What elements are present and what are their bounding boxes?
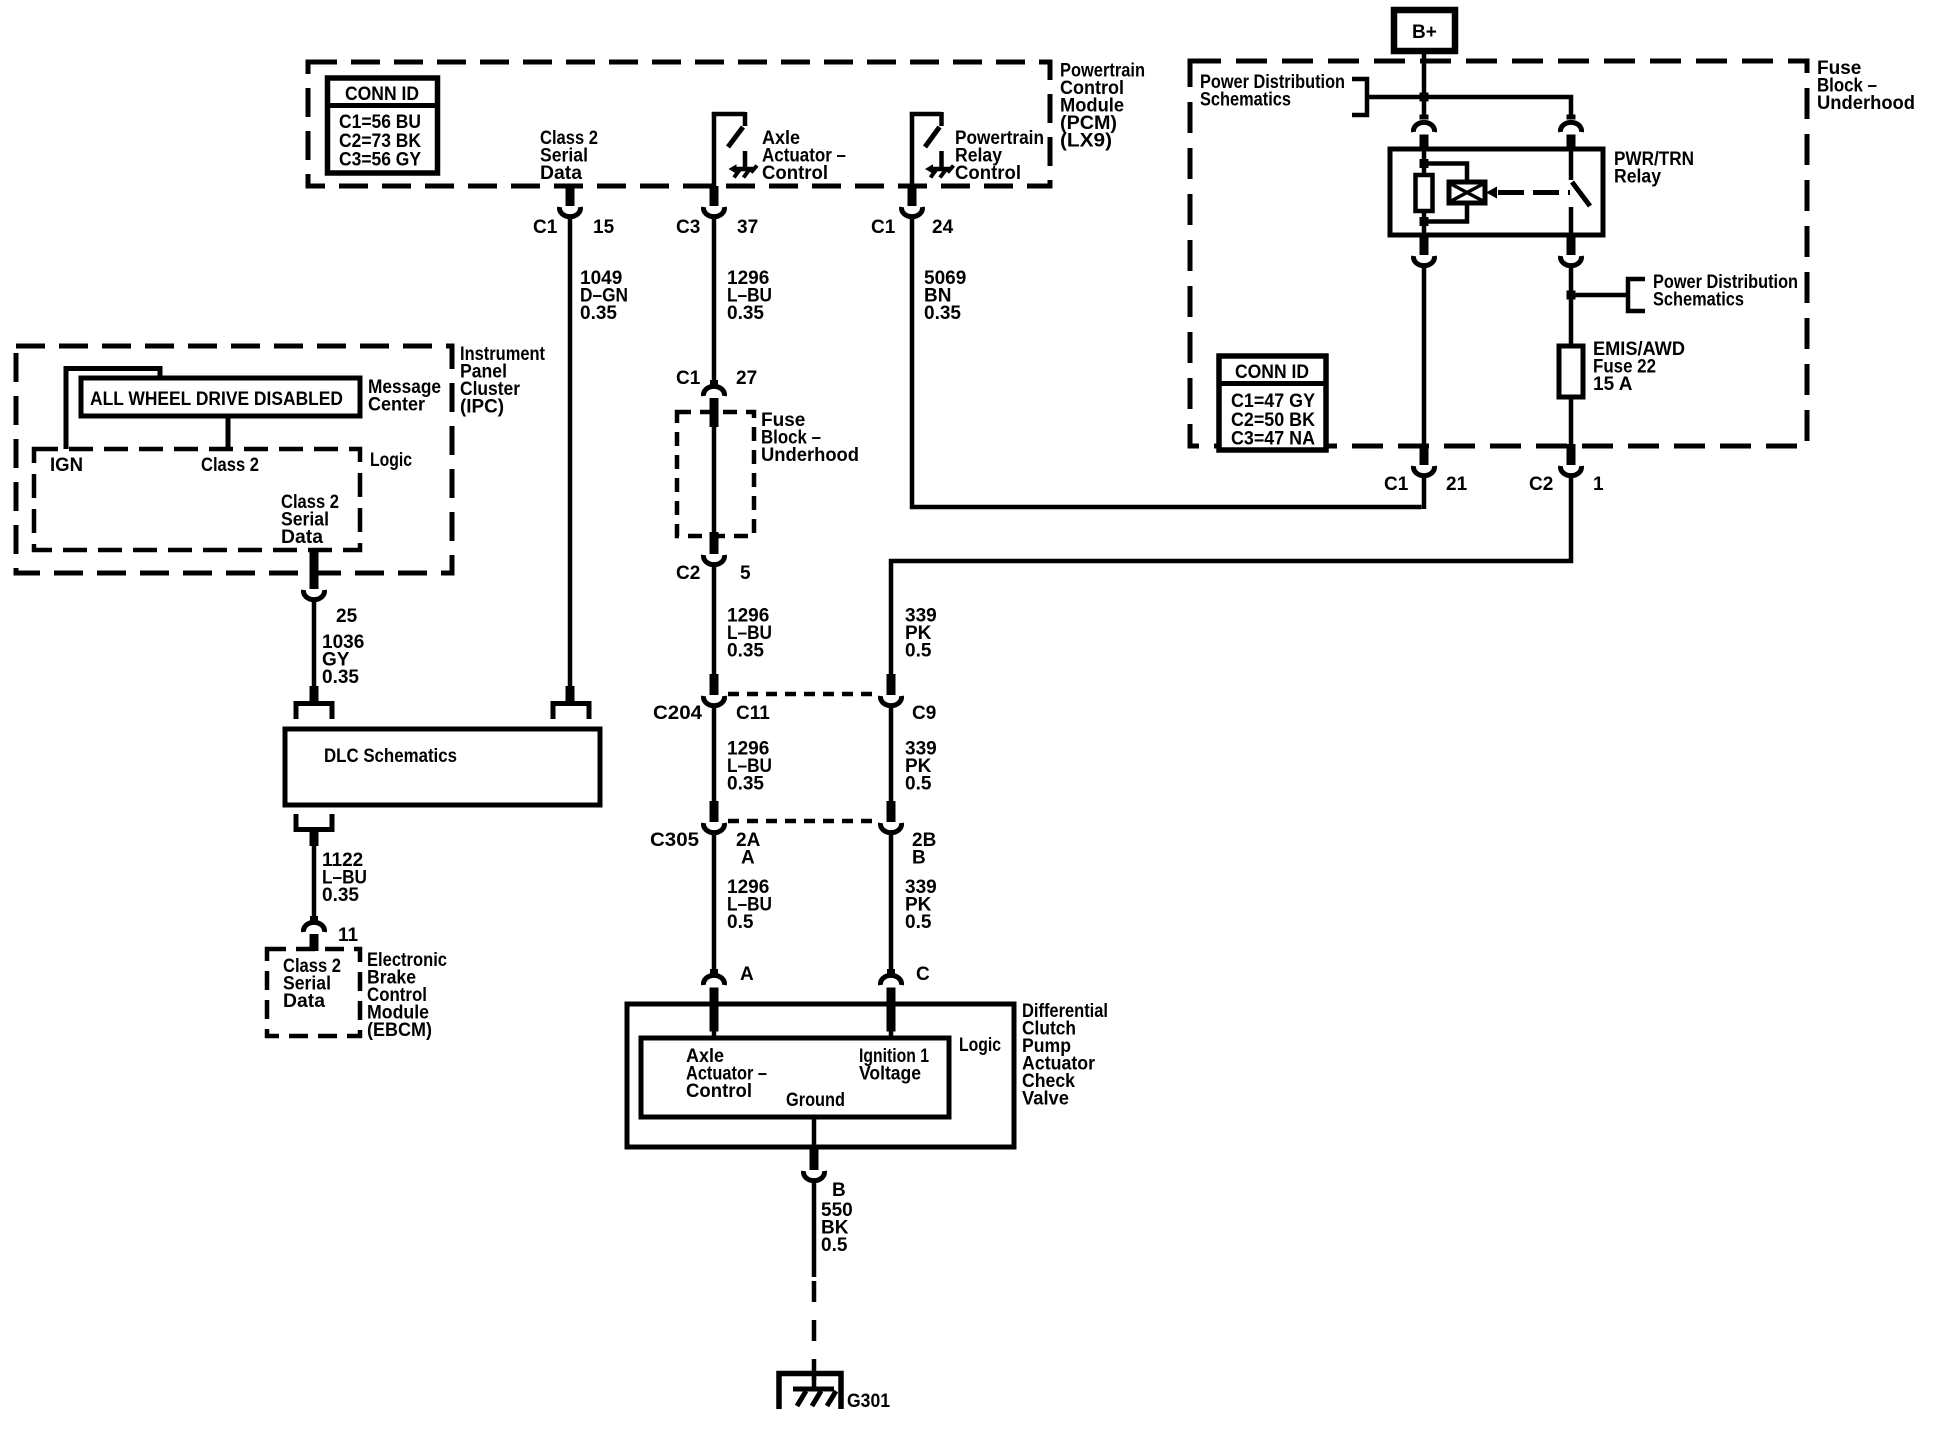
wire: B+ feed down: [1422, 51, 1427, 118]
connector C3 pin 37 (PCM): [704, 186, 725, 217]
svg-text:0.5: 0.5: [905, 641, 932, 662]
svg-text:Control: Control: [762, 163, 828, 184]
svg-text:Control: Control: [686, 1081, 752, 1102]
connector C1 pin 21 (fuse block): [1414, 444, 1435, 476]
wire 1036 GY label: [322, 632, 364, 688]
pin A C labels: [740, 964, 930, 985]
svg-text:Data: Data: [281, 527, 323, 548]
svg-text:15: 15: [593, 217, 615, 238]
svg-text:C1: C1: [676, 368, 701, 389]
wire: 2A down to valve pin A: [712, 834, 717, 974]
Differential Clutch Pump Actuator Check Valve label: [1022, 1001, 1108, 1110]
connector C1 pin 15 (PCM): [560, 186, 581, 217]
power distribution bracket (top): [1352, 79, 1367, 115]
svg-text:C3=56 GY: C3=56 GY: [339, 150, 421, 171]
svg-text:37: 37: [737, 217, 758, 238]
svg-text:Valve: Valve: [1022, 1089, 1069, 1110]
C1 21 labels: [1384, 474, 1468, 495]
wire: relay coil to fuse block C1-21: [1422, 268, 1427, 446]
svg-text:0.5: 0.5: [727, 912, 754, 933]
svg-text:C9: C9: [912, 703, 936, 724]
Power Distribution Schematics label (top): [1200, 72, 1345, 111]
svg-text:IGN: IGN: [50, 455, 83, 476]
svg-text:C3: C3: [676, 217, 700, 238]
svg-text:Schematics: Schematics: [1653, 290, 1744, 311]
wire: DLC down to EBCM pin 11: [312, 844, 317, 917]
inline connector C204 / C11: [703, 674, 724, 706]
connector pin 25 (IPC): [304, 550, 325, 600]
svg-text:C: C: [916, 964, 930, 985]
ground symbol G301: [779, 1374, 841, 1410]
dashed link C11-C9: [728, 692, 878, 697]
wire: relay switched output down: [1569, 268, 1574, 346]
junction node switched feed: [1567, 291, 1576, 300]
wire 1296 L-BU label (mid): [727, 739, 772, 795]
svg-text:ALL WHEEL DRIVE DISABLED: ALL WHEEL DRIVE DISABLED: [90, 389, 343, 410]
PCM module name label: [1060, 61, 1145, 152]
EBCM dashed box: [267, 949, 360, 1036]
wire: C1-21 down to PCM relay control feed: [1422, 478, 1427, 509]
Power Distribution Schematics label (right): [1653, 272, 1798, 311]
svg-text:27: 27: [736, 368, 757, 389]
actuation arrow head: [1486, 187, 1497, 199]
relay coil resistor element: [1416, 175, 1433, 211]
junction node coil bottom: [1420, 217, 1429, 226]
svg-text:B: B: [912, 848, 926, 869]
C305 2A 2B labels: [650, 830, 936, 869]
svg-text:C11: C11: [736, 703, 770, 724]
svg-text:Underhood: Underhood: [761, 445, 859, 466]
wire: IPC pin 25 down to DLC: [312, 602, 317, 688]
svg-text:B+: B+: [1412, 22, 1437, 43]
PWR/TRN relay box: [1390, 149, 1603, 235]
svg-text:11: 11: [338, 925, 359, 946]
wire: C11 down to C305: [712, 707, 717, 803]
svg-text:A: A: [741, 848, 755, 869]
svg-text:25: 25: [336, 606, 358, 627]
svg-text:Logic: Logic: [370, 450, 412, 471]
svg-text:CONN ID: CONN ID: [1235, 362, 1309, 383]
svg-text:0.35: 0.35: [727, 641, 764, 662]
svg-text:G301: G301: [847, 1391, 890, 1412]
fuse block underhood dashed box: [1190, 61, 1807, 446]
svg-text:A: A: [740, 964, 754, 985]
svg-text:Data: Data: [540, 163, 582, 184]
DLC terminal bracket top-left: [296, 686, 332, 719]
wire: powertrain relay control C1-24 down then right to fuse block C1-21: [912, 219, 1422, 507]
check valve inner logic box: [641, 1038, 949, 1117]
wire: C9 down to C305: [889, 707, 894, 803]
C1 15 labels: [533, 217, 615, 238]
Ignition 1 Voltage label: [859, 1046, 929, 1085]
DLC Schematics box: [285, 729, 600, 805]
wire 1122 L-BU label: [322, 850, 367, 906]
svg-text:0.35: 0.35: [322, 885, 359, 906]
svg-text:5: 5: [740, 563, 751, 584]
connector C2 pin 1 (fuse block): [1561, 444, 1582, 476]
svg-text:0.35: 0.35: [727, 303, 764, 324]
wire 1296 L-BU label (below C2-5): [727, 606, 772, 662]
B+ power feed box: [1394, 10, 1455, 51]
IPC dashed box (Instrument Panel Cluster): [16, 346, 452, 573]
C2 1 labels: [1529, 474, 1604, 495]
Class 2 Serial Data pin label (PCM C1-15): [540, 128, 598, 184]
svg-text:(EBCM): (EBCM): [367, 1020, 432, 1041]
Fuse Block Underhood label: [1817, 58, 1915, 114]
connector C1 pin 27 (fuse block underhood): [704, 380, 725, 427]
message box ALL WHEEL DRIVE DISABLED: [81, 378, 360, 416]
PCM dashed box (Powertrain Control Module): [308, 62, 1050, 186]
relay terminal connector (bottom left): [1414, 235, 1435, 266]
wire 339 PK label (upper): [905, 606, 937, 662]
wire 1049 D-GN label: [580, 268, 628, 324]
inline connector 2B: [881, 801, 902, 833]
Message Center label: [368, 377, 441, 416]
wire: power distribution tap (right): [1571, 293, 1628, 298]
svg-text:C2: C2: [1529, 474, 1553, 495]
wire: pin B down solid: [812, 1182, 817, 1277]
svg-text:Center: Center: [368, 395, 426, 416]
Axle Actuator Control label (valve): [686, 1046, 767, 1102]
svg-text:C305: C305: [650, 830, 699, 851]
IPC name label: [460, 344, 546, 418]
relay terminal connector (bottom right): [1561, 235, 1582, 266]
Class 2 Serial Data label (IPC logic): [281, 492, 339, 548]
wire 1296 L-BU label (upper): [727, 268, 772, 324]
wire 1296 L-BU 0.5 label (lower): [727, 877, 772, 933]
PWR/TRN Relay label: [1614, 149, 1694, 188]
svg-text:0.35: 0.35: [322, 667, 359, 688]
wire: ground from inner box to pin B: [812, 1117, 817, 1147]
relay switch blade: [1572, 182, 1590, 206]
svg-text:C1: C1: [1384, 474, 1409, 495]
svg-text:CONN ID: CONN ID: [345, 84, 419, 105]
relay solenoid box with X: [1449, 182, 1485, 203]
svg-text:DLC Schematics: DLC Schematics: [324, 746, 457, 767]
wire: C2-5 down to C204/C11: [712, 567, 717, 676]
relay switch lower contact: [1569, 207, 1574, 235]
C2 5 labels: [676, 563, 751, 584]
junction node at B+ tap: [1420, 93, 1429, 102]
wire 550 BK label: [821, 1200, 853, 1256]
CONN ID table (fuse block): [1219, 356, 1326, 450]
connector C2 pin 5 (fuse block underhood): [703, 532, 724, 565]
DLC terminal bracket top-right: [553, 686, 589, 719]
driver symbol: Powertrain Relay Control output: [910, 112, 954, 186]
C1 27 labels: [676, 368, 757, 389]
relay terminal connector (top right, 30): [1560, 115, 1581, 151]
svg-text:Underhood: Underhood: [1817, 93, 1915, 114]
wire: power distribution tap across: [1367, 97, 1571, 118]
svg-text:Ground: Ground: [786, 1090, 845, 1111]
svg-text:0.5: 0.5: [905, 774, 932, 795]
connector pin 11 (EBCM): [304, 916, 325, 951]
wire 5069 BN label: [924, 268, 966, 324]
svg-text:1: 1: [1593, 474, 1604, 495]
inline connector C305 / 2A: [703, 801, 724, 833]
wire: axle actuator C3-37 down to C1-27: [712, 219, 717, 381]
wire: dashed segment to ground: [812, 1281, 817, 1383]
svg-text:Control: Control: [955, 163, 1021, 184]
svg-text:Relay: Relay: [1614, 167, 1661, 188]
relay coil branch wire: [1422, 149, 1427, 235]
svg-text:C1=56 BU: C1=56 BU: [339, 112, 421, 133]
CONN ID table (PCM): [328, 78, 438, 173]
C1 24 labels: [871, 217, 954, 238]
svg-text:0.35: 0.35: [727, 774, 764, 795]
svg-text:0.35: 0.35: [924, 303, 961, 324]
wire 339 PK label (lower): [905, 877, 937, 933]
C204 C11 C9 labels: [653, 703, 936, 724]
wire: Class 2 serial data C1-15 down to DLC: [568, 219, 573, 688]
svg-text:C1=47 GY: C1=47 GY: [1231, 391, 1315, 412]
svg-text:Voltage: Voltage: [859, 1064, 921, 1085]
svg-text:21: 21: [1446, 474, 1468, 495]
fuse EMIS/AWD 22 element: [1559, 346, 1583, 397]
svg-text:Class 2: Class 2: [201, 455, 259, 476]
Powertrain Relay Control label: [955, 128, 1044, 184]
logic dashed box (IPC): [34, 449, 360, 550]
svg-text:B: B: [832, 1180, 846, 1201]
svg-text:C1: C1: [871, 217, 896, 238]
DLC terminal bracket bottom: [296, 814, 332, 846]
svg-text:15 A: 15 A: [1593, 374, 1633, 395]
connector pin C (check valve): [881, 969, 902, 1040]
inline connector C9: [881, 674, 902, 706]
connector pin B (check valve ground): [804, 1147, 825, 1181]
wire: 2B down to valve pin C: [889, 834, 894, 974]
svg-text:(LX9): (LX9): [1060, 131, 1112, 152]
svg-text:C1: C1: [533, 217, 558, 238]
relay terminal connector (top left, 86): [1414, 115, 1435, 151]
differential clutch pump actuator check valve outer box: [627, 1004, 1014, 1147]
wire: message box to Class 2 logic input: [226, 416, 231, 449]
svg-text:C3=47 NA: C3=47 NA: [1231, 429, 1315, 450]
wire inside small fuse box: [712, 425, 717, 534]
wire: into ground symbol: [812, 1377, 817, 1389]
power distribution bracket (right): [1628, 279, 1645, 311]
Class 2 Serial Data label (EBCM): [283, 956, 341, 1012]
svg-text:C2: C2: [676, 563, 700, 584]
driver symbol: Axle Actuator Control output: [712, 112, 757, 186]
connector pin A (check valve): [703, 969, 724, 1040]
fuse block underhood small dashed box: [677, 412, 754, 536]
fuse block underhood small label: [761, 410, 859, 466]
connector C1 pin 24 (PCM): [902, 186, 923, 217]
svg-text:24: 24: [932, 217, 954, 238]
dashed link 2A-2B: [728, 819, 878, 824]
relay coil loop wire: [1424, 164, 1467, 222]
svg-text:0.5: 0.5: [905, 912, 932, 933]
svg-text:Logic: Logic: [959, 1035, 1001, 1056]
EMIS/AWD Fuse label: [1593, 339, 1685, 395]
EBCM name label: [367, 950, 447, 1041]
svg-text:Data: Data: [283, 991, 325, 1012]
Axle Actuator Control label: [762, 128, 846, 184]
relay switch fixed contact: [1569, 149, 1574, 180]
wire 339 PK label (mid): [905, 739, 937, 795]
svg-text:0.35: 0.35: [580, 303, 617, 324]
svg-text:0.5: 0.5: [821, 1235, 848, 1256]
wire: 339 PK feed from fuse C2-1 down to C9: [891, 478, 1571, 676]
wire: fuse output down: [1569, 397, 1574, 446]
C3 37 labels: [676, 217, 758, 238]
wire: message box to IGN logic input: [66, 369, 160, 450]
junction node coil top: [1420, 159, 1429, 168]
svg-text:Schematics: Schematics: [1200, 90, 1291, 111]
svg-text:C204: C204: [653, 703, 702, 724]
svg-text:(IPC): (IPC): [460, 397, 504, 418]
actuation dashed link: [1498, 190, 1570, 195]
